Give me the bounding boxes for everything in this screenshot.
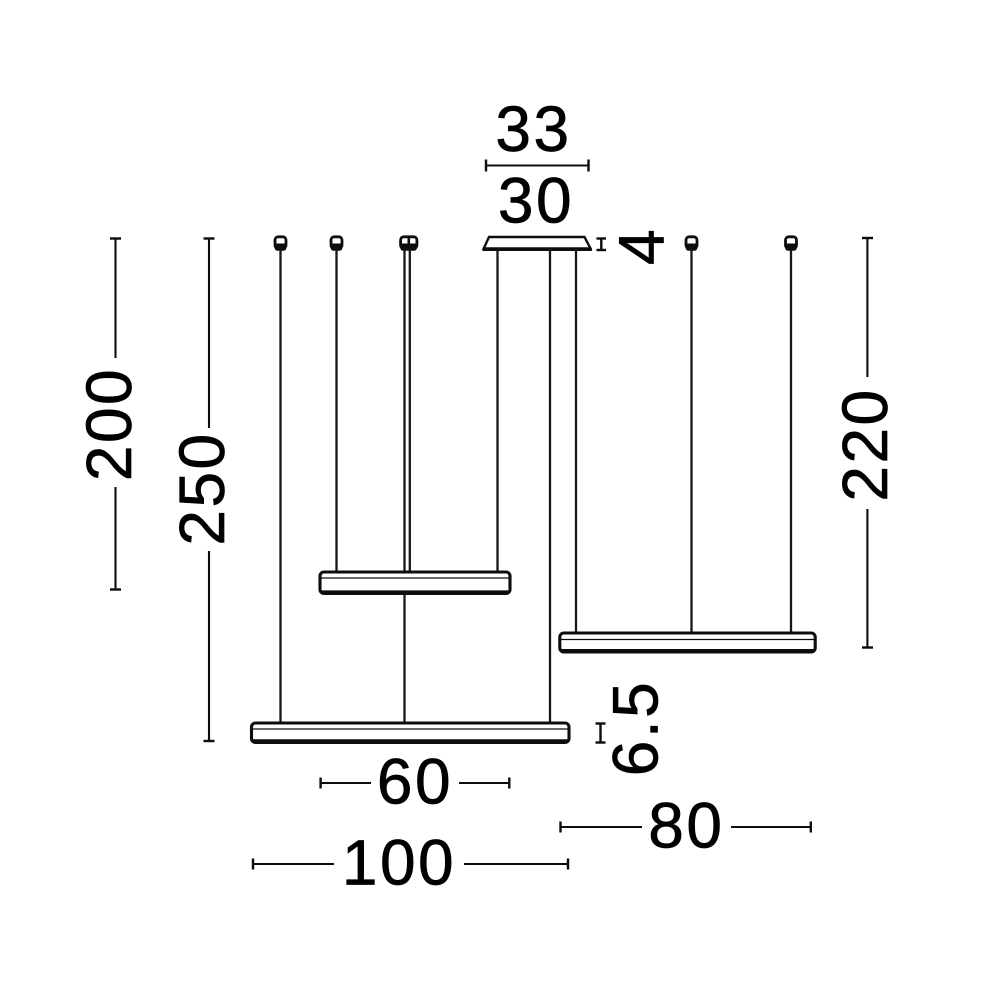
- dimension 100 line: [253, 859, 568, 870]
- svg-text:6.5: 6.5: [599, 680, 671, 776]
- wire H: [790, 249, 792, 633]
- dimension 4 tick: [597, 239, 607, 251]
- wire C1: [403, 249, 405, 723]
- dimension 250 line: [204, 239, 215, 742]
- bottom bar (100): [252, 723, 570, 743]
- wire cap C (double): [400, 237, 417, 251]
- wire F (canopy to right bar): [575, 249, 577, 633]
- svg-text:80: 80: [648, 789, 724, 861]
- dimension 220 line: [862, 238, 873, 648]
- svg-text:220: 220: [829, 387, 901, 501]
- dimension 60 line: [321, 778, 510, 789]
- right bar (80): [560, 633, 815, 652]
- dimension 200 line: [110, 239, 121, 590]
- wire cap G: [686, 237, 698, 251]
- wire A: [279, 249, 281, 723]
- wire cap B: [331, 237, 343, 251]
- wire E (canopy to bottom bar): [549, 249, 551, 723]
- svg-text:250: 250: [166, 431, 238, 545]
- wire cap H: [785, 237, 797, 251]
- wire G: [690, 249, 692, 633]
- dimension 6.5 tick: [596, 724, 606, 743]
- svg-text:100: 100: [342, 826, 456, 898]
- dimension 80 line: [561, 822, 811, 833]
- svg-text:4: 4: [605, 227, 677, 265]
- middle bar (60): [320, 572, 510, 594]
- dimension 33 line: [486, 160, 589, 172]
- svg-text:33: 33: [495, 93, 571, 165]
- wire B: [335, 249, 337, 572]
- svg-text:30: 30: [498, 164, 574, 236]
- wire cap A: [275, 237, 287, 251]
- svg-text:60: 60: [377, 746, 453, 818]
- wire C2: [409, 249, 411, 572]
- svg-text:200: 200: [73, 367, 145, 481]
- canopy: [483, 237, 592, 249]
- wire D (canopy to middle bar): [496, 249, 498, 572]
